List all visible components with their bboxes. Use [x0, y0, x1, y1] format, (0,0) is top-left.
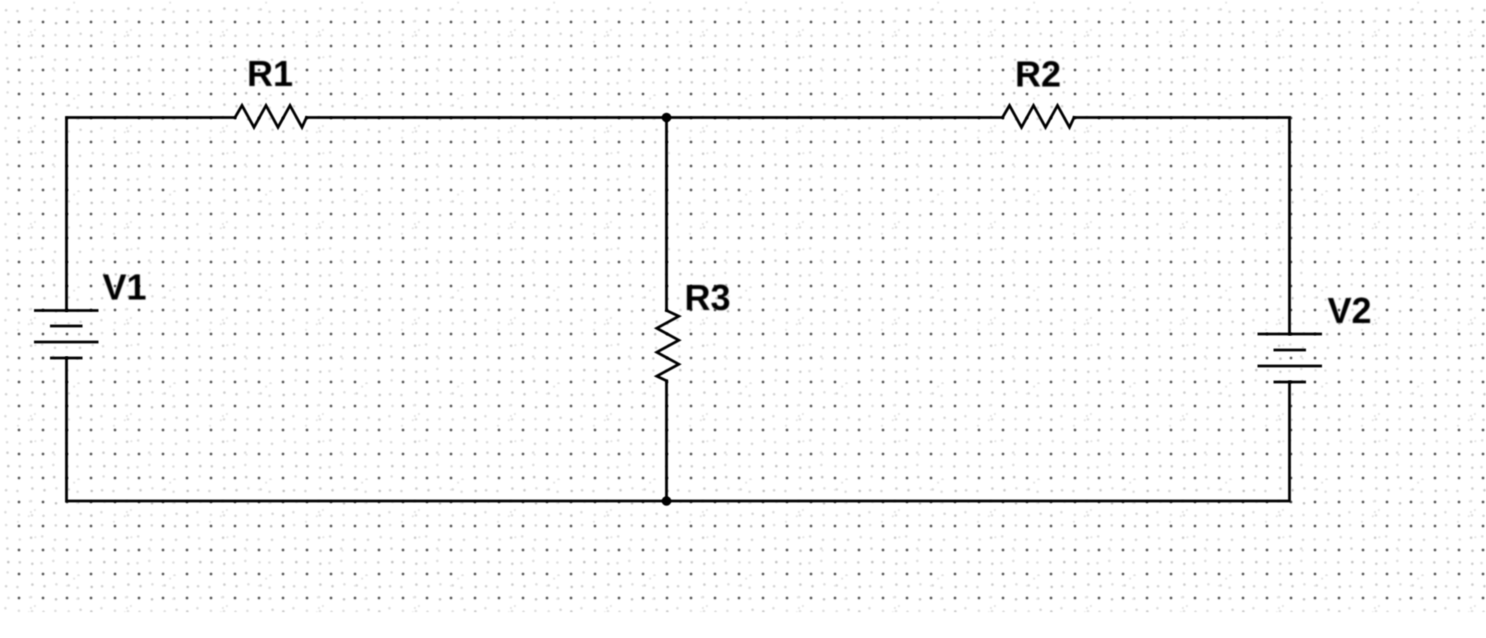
wire: V1 bottom down and bottom rail to right — [67, 358, 1290, 501]
wire: R1 to middle node — [307, 116, 667, 119]
wire: middle node to R2 — [667, 116, 1003, 119]
wire: top left segment from V1 up and right to R1 — [67, 118, 236, 311]
battery V1 — [34, 311, 99, 359]
svg-text:R2: R2 — [1015, 54, 1061, 95]
svg-text:R3: R3 — [684, 277, 730, 318]
wire: middle node down to R3 — [665, 118, 668, 311]
svg-text:V2: V2 — [1327, 290, 1371, 331]
resistor R3 — [657, 311, 679, 381]
svg-text:R1: R1 — [247, 53, 293, 94]
wire: R3 down to bottom node — [665, 381, 668, 501]
resistor R2 — [1003, 106, 1075, 128]
node junction dot bottom — [662, 496, 672, 506]
svg-text:V1: V1 — [102, 267, 146, 308]
node junction dot top (middle node) — [662, 113, 672, 123]
battery V2 — [1258, 334, 1323, 382]
resistor R1 — [235, 106, 307, 128]
wire: R2 right to top-right corner down to V2 — [1074, 118, 1290, 335]
